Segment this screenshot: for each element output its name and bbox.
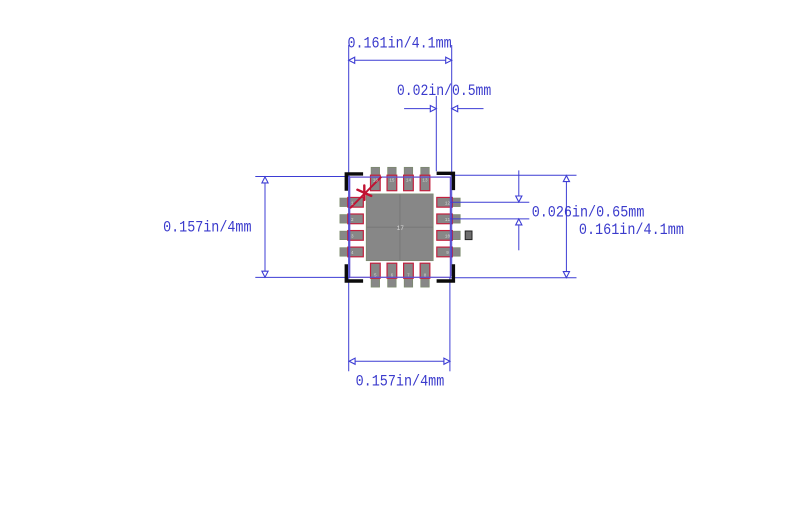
svg-text:0.157in/4mm: 0.157in/4mm bbox=[163, 218, 251, 236]
svg-text:1: 1 bbox=[351, 201, 354, 206]
svg-text:6: 6 bbox=[391, 273, 394, 278]
svg-text:4: 4 bbox=[351, 251, 354, 256]
svg-text:16: 16 bbox=[373, 179, 379, 184]
svg-text:0.02in/0.5mm: 0.02in/0.5mm bbox=[397, 82, 491, 100]
svg-text:12: 12 bbox=[445, 201, 451, 206]
svg-text:0.161in/4.1mm: 0.161in/4.1mm bbox=[579, 221, 684, 239]
svg-text:7: 7 bbox=[407, 273, 410, 278]
svg-text:5: 5 bbox=[374, 273, 377, 278]
svg-text:10: 10 bbox=[445, 234, 451, 239]
svg-text:0.161in/4.1mm: 0.161in/4.1mm bbox=[348, 34, 452, 52]
svg-text:3: 3 bbox=[351, 234, 354, 239]
svg-text:2: 2 bbox=[351, 218, 354, 223]
svg-text:0.026in/0.65mm: 0.026in/0.65mm bbox=[532, 203, 645, 221]
svg-text:8: 8 bbox=[424, 273, 427, 278]
svg-text:9: 9 bbox=[446, 251, 449, 256]
svg-text:13: 13 bbox=[422, 179, 428, 184]
svg-text:15: 15 bbox=[389, 179, 395, 184]
svg-text:14: 14 bbox=[406, 179, 412, 184]
svg-text:11: 11 bbox=[445, 218, 451, 223]
svg-text:0.157in/4mm: 0.157in/4mm bbox=[356, 373, 445, 391]
svg-text:17: 17 bbox=[397, 225, 405, 232]
